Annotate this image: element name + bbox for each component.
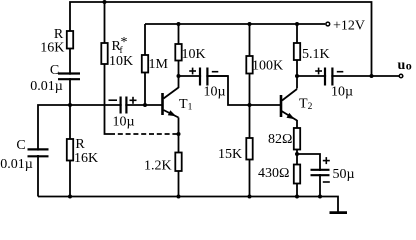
- svg-text:1M: 1M: [149, 57, 169, 72]
- svg-text:uo: uo: [398, 58, 412, 73]
- svg-text:82Ω: 82Ω: [268, 132, 292, 147]
- svg-text:1.2K: 1.2K: [144, 159, 172, 174]
- svg-text:100K: 100K: [252, 59, 283, 74]
- svg-text:0.01µ: 0.01µ: [0, 157, 33, 172]
- svg-text:0.01µ: 0.01µ: [30, 79, 63, 94]
- svg-text:50µ: 50µ: [333, 167, 355, 182]
- svg-text:R: R: [75, 137, 85, 152]
- svg-text:10µ: 10µ: [113, 115, 135, 130]
- svg-text:10K: 10K: [182, 47, 206, 62]
- svg-text:15K: 15K: [218, 147, 242, 162]
- svg-text:+12V: +12V: [333, 19, 365, 34]
- svg-text:10µ: 10µ: [204, 85, 226, 100]
- svg-text:5.1K: 5.1K: [302, 47, 330, 62]
- svg-text:*: *: [121, 35, 128, 50]
- svg-text:10µ: 10µ: [331, 85, 353, 100]
- svg-text:C: C: [50, 63, 59, 78]
- svg-text:C: C: [16, 138, 25, 153]
- svg-text:16K: 16K: [74, 151, 98, 166]
- svg-text:430Ω: 430Ω: [258, 166, 289, 181]
- svg-text:10K: 10K: [109, 54, 133, 69]
- svg-text:16K: 16K: [40, 41, 64, 56]
